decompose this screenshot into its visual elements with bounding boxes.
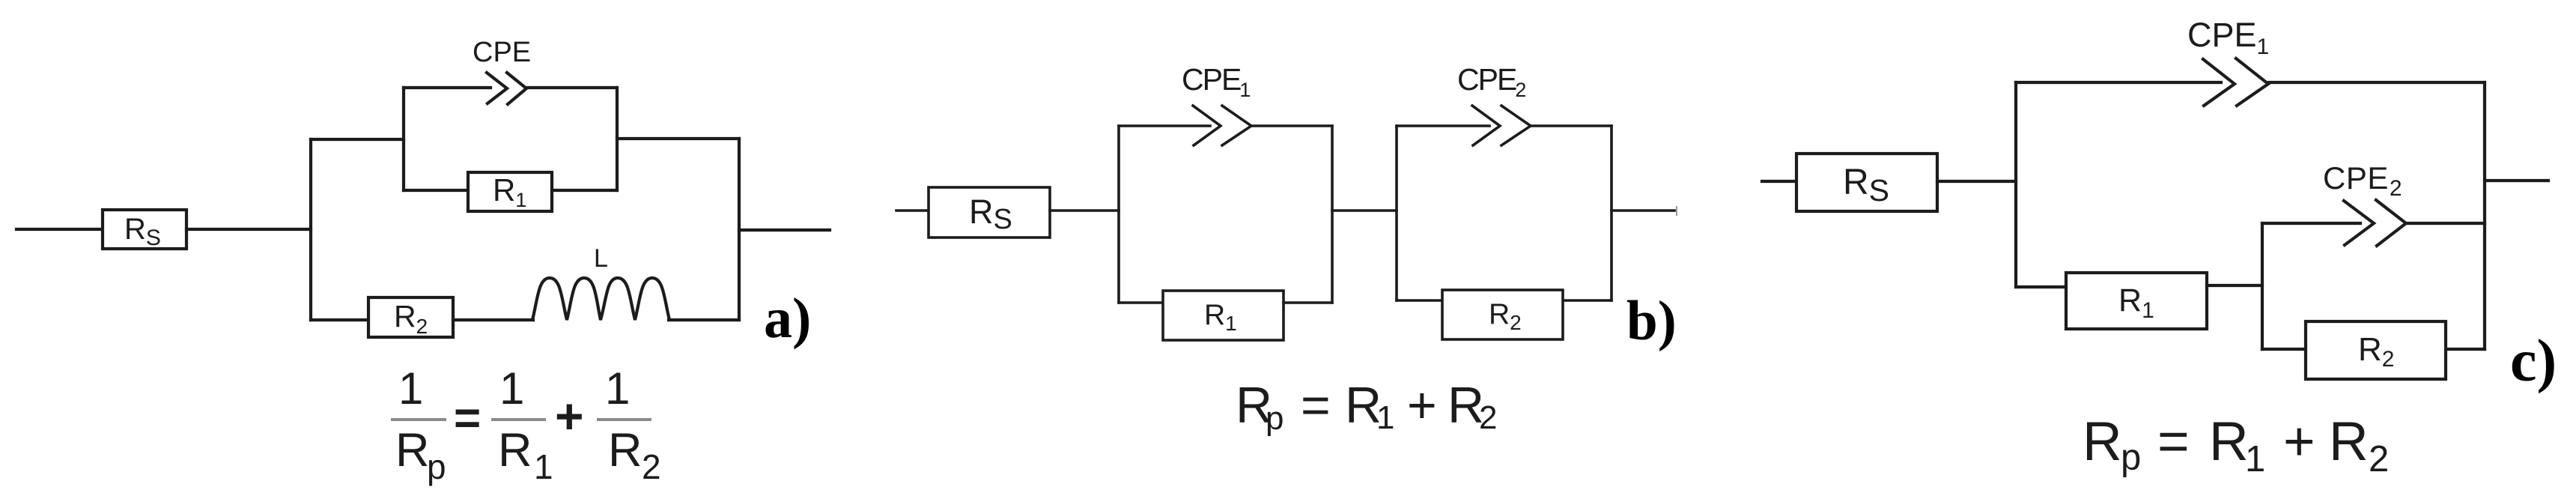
svg-text:R: R xyxy=(2083,411,2122,472)
svg-text:1: 1 xyxy=(499,363,524,414)
wire c output xyxy=(2485,179,2548,182)
wire a bottom left segment xyxy=(311,318,368,321)
wire a output xyxy=(739,229,830,232)
resistor R2 (b) box xyxy=(1442,290,1563,339)
capacitor CPE2 (c) chevrons xyxy=(2344,200,2406,246)
wire a inner-right vertical xyxy=(616,88,619,190)
svg-text:1: 1 xyxy=(398,363,423,414)
svg-text:p: p xyxy=(1266,400,1284,437)
svg-text:a): a) xyxy=(764,287,811,350)
inductor L (a) xyxy=(532,278,669,320)
svg-text:c): c) xyxy=(2510,328,2557,394)
wire b block2 right vertical xyxy=(1610,126,1613,300)
wire c R1 to block xyxy=(2207,284,2262,287)
wire b block1 bottom left segment xyxy=(1119,301,1163,304)
wire b output xyxy=(1611,209,1674,212)
svg-text:L: L xyxy=(594,244,608,273)
svg-text:b): b) xyxy=(1626,290,1677,352)
wire b input xyxy=(896,209,930,212)
wire a inner bottom right segment xyxy=(552,189,617,192)
wire a top-left connector xyxy=(311,138,404,141)
svg-text:R: R xyxy=(498,424,532,477)
resistor R1 (a) box xyxy=(468,172,552,211)
svg-text:2: 2 xyxy=(642,447,661,486)
svg-text:+: + xyxy=(2283,411,2315,472)
resistor R2 (a) box xyxy=(368,297,453,337)
svg-text:R: R xyxy=(395,424,430,477)
wire c Rs to node xyxy=(1937,180,2016,183)
wire a inner-left vertical xyxy=(402,88,405,190)
svg-text:1: 1 xyxy=(534,447,553,486)
capacitor CPE1 (c) chevrons xyxy=(2203,58,2268,106)
wire a R2 to L xyxy=(453,318,533,321)
svg-text:R: R xyxy=(2329,411,2369,472)
svg-text:CPE2: CPE2 xyxy=(2323,160,2402,201)
svg-text:1: 1 xyxy=(2245,439,2265,480)
wire a inner top right segment xyxy=(527,86,617,89)
svg-text:p: p xyxy=(427,447,446,486)
capacitor CPE1 (b) chevrons xyxy=(1193,106,1251,145)
svg-text:CPE1: CPE1 xyxy=(2187,16,2269,59)
svg-text:+: + xyxy=(555,388,584,444)
wire c input xyxy=(1762,180,1796,183)
wire a top-right connector xyxy=(617,137,739,140)
capacitor CPE (a) chevrons xyxy=(487,73,526,104)
wire c top left segment xyxy=(2016,81,2221,84)
resistor Rs (c) box xyxy=(1796,154,1937,211)
svg-text:+: + xyxy=(1407,377,1437,434)
wire a left vertical xyxy=(309,139,312,320)
wire b block2 bottom left segment xyxy=(1397,299,1442,302)
svg-text:1: 1 xyxy=(1376,399,1394,436)
resistor R2 (c) box xyxy=(2306,321,2446,379)
wire c block bottom right segment xyxy=(2446,348,2485,351)
svg-text:2: 2 xyxy=(1479,399,1497,436)
wire c top right segment xyxy=(2269,81,2485,84)
resistor R1 (c) box xyxy=(2066,273,2207,329)
svg-text:CPE2: CPE2 xyxy=(1457,62,1525,101)
wire a L to right xyxy=(669,318,739,321)
wire a right vertical xyxy=(738,139,741,320)
capacitor CPE2 (b) chevrons xyxy=(1472,106,1531,145)
svg-text:p: p xyxy=(2121,438,2141,478)
wire a Rs to node xyxy=(186,228,311,231)
equation a : 1/Rp = 1/R1 + 1/R2 xyxy=(391,363,661,486)
svg-text:CPE1: CPE1 xyxy=(1182,62,1250,101)
wire b block1 top left segment xyxy=(1119,124,1210,127)
wire a inner top left segment xyxy=(404,86,490,89)
wire b block2 top left segment xyxy=(1397,124,1489,127)
resistor R1 (b) box xyxy=(1163,291,1284,340)
wire c left vertical xyxy=(2014,82,2017,287)
resistor Rs (a) box xyxy=(103,210,186,249)
wire b block1 left vertical xyxy=(1117,126,1120,303)
wire b block2 bottom right segment xyxy=(1564,299,1611,302)
wire a inner bottom left segment xyxy=(404,189,469,192)
wire c bottom left segment xyxy=(2016,285,2066,288)
svg-text:=: = xyxy=(1301,377,1331,434)
wire c block top right segment xyxy=(2407,222,2485,225)
wire b block1 right vertical xyxy=(1331,126,1334,303)
svg-text:R: R xyxy=(608,424,643,477)
wire b block2 top right segment xyxy=(1531,124,1611,127)
wire b block2 left vertical xyxy=(1395,126,1398,300)
wire c block top left segment xyxy=(2262,222,2360,225)
svg-text:CPE: CPE xyxy=(473,37,531,68)
svg-text:=: = xyxy=(2157,411,2190,472)
equation c : Rp = R1 + R2 xyxy=(2083,411,2389,480)
svg-text:1: 1 xyxy=(605,363,630,414)
wire b Rs to block1 xyxy=(1050,209,1119,212)
svg-text:=: = xyxy=(454,393,481,444)
wire a input xyxy=(16,228,103,231)
equation b : Rp = R1 + R2 xyxy=(1236,377,1497,437)
wire b block1 top right segment xyxy=(1252,124,1332,127)
wire c block left vertical xyxy=(2261,223,2264,349)
wire b middle xyxy=(1332,209,1397,212)
wire c block bottom left segment xyxy=(2262,348,2306,351)
svg-text:2: 2 xyxy=(2369,439,2389,480)
wire c right vertical xyxy=(2483,82,2486,349)
node tick at b output end xyxy=(1676,207,1677,215)
resistor Rs (b) box xyxy=(929,187,1050,238)
wire b block1 bottom right segment xyxy=(1284,301,1332,304)
svg-text:R: R xyxy=(2209,411,2249,472)
